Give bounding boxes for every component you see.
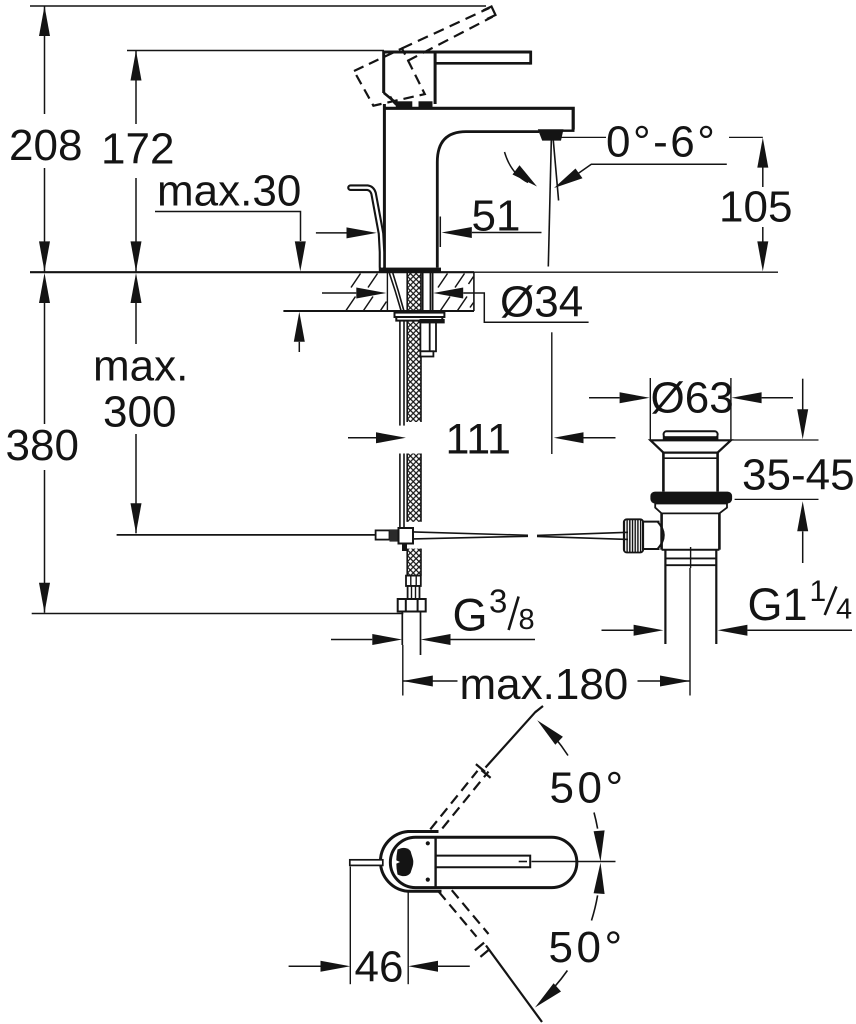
handle lever bar	[384, 51, 531, 65]
dimension 105 line	[762, 165, 764, 243]
waste locknut	[655, 504, 727, 514]
handle joint shadow	[396, 101, 433, 107]
spray angle reference line	[558, 136, 763, 138]
arrow 380 bottom	[39, 583, 50, 613]
svg-text:8: 8	[519, 604, 535, 636]
horizontal linkage rod left segment	[413, 532, 528, 539]
leader 0-6 underline	[571, 164, 727, 178]
dimension max300 line	[135, 303, 137, 533]
pop-up rod below deck upper	[400, 321, 404, 426]
top view thumb recess	[396, 848, 413, 876]
arrow max.30 at deck top	[295, 241, 306, 271]
rod guide curve in deck hole	[389, 273, 404, 311]
dimension 380 line	[44, 303, 46, 613]
reference line top of lifted handle	[30, 5, 486, 7]
countertop deck section top line	[30, 271, 474, 273]
label G1 1/4	[748, 575, 853, 630]
svg-text:max.180: max.180	[460, 660, 629, 709]
handle base	[384, 52, 435, 108]
svg-text:0°-6°: 0°-6°	[606, 118, 717, 167]
svg-text:50°: 50°	[550, 764, 627, 813]
svg-text:380: 380	[6, 421, 79, 470]
dimension 172 line	[135, 51, 137, 273]
pop-up linkage rod end cap	[376, 530, 390, 539]
pop-up rod above deck	[351, 188, 383, 267]
arrow max.30 at deck bottom	[294, 312, 305, 352]
svg-text:Ø34: Ø34	[500, 278, 583, 327]
braided hose lower	[407, 549, 421, 576]
supply hex nut	[398, 599, 426, 612]
reference line top of handle rest	[127, 50, 384, 52]
rotation arc upper	[554, 737, 597, 829]
arrow arc upper outer	[537, 720, 563, 745]
top view pop-up rod	[350, 860, 383, 866]
dimension 51 right arrow	[442, 227, 542, 238]
horizontal linkage rod right segment	[537, 532, 628, 539]
handle swing upper dashed	[430, 706, 543, 829]
waste centerline	[690, 547, 692, 568]
dimension Ø34 left arrow	[322, 288, 386, 299]
flange reference line	[731, 439, 819, 441]
faucet body outline	[383, 104, 575, 269]
dimension G3/8 arrows	[331, 634, 535, 645]
svg-text:Ø63: Ø63	[651, 374, 734, 423]
dimension Ø63	[589, 378, 793, 440]
water stream tilted	[553, 141, 558, 201]
svg-text:51: 51	[472, 192, 521, 241]
arrow 208 top	[39, 6, 50, 36]
water stream straight	[548, 141, 551, 267]
arrow max300 top	[131, 273, 142, 303]
rotation arc lower	[554, 895, 597, 987]
waste upper barrel	[663, 453, 717, 492]
380 reference line bottom	[32, 613, 404, 615]
aerator outlet	[538, 129, 564, 140]
dimension max180	[403, 568, 690, 696]
dimension 46	[289, 867, 470, 985]
arrow 0-6 leader	[554, 169, 583, 189]
waste flange	[651, 440, 731, 452]
svg-text:300: 300	[103, 388, 176, 437]
svg-text:1: 1	[810, 575, 827, 608]
waste adjusting knob	[624, 519, 643, 552]
spray swivel arc	[505, 152, 529, 183]
pop-up linkage coupler	[390, 529, 399, 541]
arrow arc lower outer	[535, 983, 561, 1007]
arrow 380 top	[39, 273, 50, 303]
waste side port	[643, 522, 664, 549]
arrow spray swivel	[513, 165, 538, 186]
arrow 172 top	[131, 51, 142, 81]
deck hatching	[346, 274, 474, 311]
label G3/8	[453, 583, 535, 641]
waste plug cap	[663, 431, 719, 440]
top view handle boundary	[434, 839, 436, 887]
dimension 111 right arrow	[554, 432, 616, 443]
arrow 105 bottom	[757, 241, 768, 271]
arrow arc lower inner	[594, 863, 605, 894]
tee joint lower stub	[402, 544, 407, 552]
waste gasket	[650, 492, 732, 504]
top view centerline	[519, 861, 616, 863]
deck surface reference line right	[474, 271, 778, 273]
svg-text:46: 46	[355, 943, 404, 992]
arrow 208 bottom	[39, 241, 50, 271]
deck hole right edge	[432, 273, 434, 311]
handle dashed lifted base	[354, 48, 425, 105]
dimension G1-1/4 arrows	[602, 625, 853, 636]
svg-text:max.30: max.30	[157, 167, 301, 216]
deck section bottom line	[283, 310, 474, 312]
svg-text:105: 105	[719, 183, 792, 232]
supply pipe	[402, 612, 420, 656]
dimension 111 left arrow	[348, 432, 406, 443]
mounting washer	[395, 313, 445, 321]
hose end connector	[406, 576, 421, 599]
top view outer escutcheon U	[380, 832, 441, 892]
pop-up rod below deck lower	[400, 454, 404, 529]
arrow 172 bottom	[131, 241, 142, 271]
dimension Ø34 right arrow and leader	[433, 288, 588, 323]
top view screw dots	[426, 841, 430, 845]
dimension 208 line	[44, 6, 46, 272]
svg-text:111: 111	[446, 416, 511, 464]
mounting nut	[420, 320, 443, 357]
arrow max300 bottom	[131, 503, 142, 533]
top view lever slot	[436, 856, 531, 868]
connector inner lines	[411, 576, 416, 599]
braided hose middle	[407, 454, 421, 522]
arrow 105 top	[757, 138, 768, 168]
svg-text:208: 208	[9, 121, 82, 170]
faucet base plate	[379, 268, 441, 273]
svg-text:G: G	[453, 590, 488, 641]
gasket reference line	[735, 498, 819, 500]
leader max.30 underline and drop	[155, 212, 301, 242]
top view handle stadium	[390, 837, 577, 887]
svg-text:G1: G1	[748, 579, 808, 630]
svg-text:3: 3	[489, 583, 507, 620]
svg-text:max.: max.	[93, 342, 188, 391]
waste tailpipe	[665, 550, 716, 644]
deck hole inner tube lines	[423, 273, 431, 311]
handle swing lower dashed	[439, 890, 542, 1022]
dimension 51 rod arrow	[316, 227, 377, 238]
arrow arc upper inner	[594, 830, 605, 861]
dimension 35-45	[797, 379, 808, 563]
max300 reference line	[117, 534, 377, 536]
svg-text:50°: 50°	[549, 923, 626, 972]
handle dashed lifted lever	[402, 7, 496, 62]
deck hole left edge	[386, 273, 388, 311]
pop-up linkage tee joint	[399, 528, 414, 544]
svg-text:35-45: 35-45	[742, 451, 855, 500]
dimension 51 extension line	[439, 217, 441, 248]
threaded shank braided hose upper	[407, 273, 421, 422]
spout axis extension line	[551, 332, 553, 454]
deck section right edge	[473, 272, 475, 311]
waste lower barrel	[662, 513, 720, 549]
svg-text:4: 4	[836, 594, 852, 626]
